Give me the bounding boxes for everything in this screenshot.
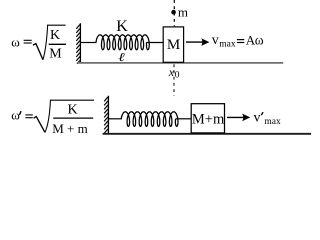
svg-text:m: m: [178, 4, 188, 19]
wire spring to box (top): [147, 42, 164, 44]
fraction bar 2: [53, 117, 93, 119]
fraction bar 1: [49, 43, 66, 45]
wire wall to spring (bottom): [109, 118, 122, 120]
svg-text:M: M: [167, 37, 180, 53]
dashed line below box: [173, 64, 175, 96]
spring K (top): [96, 35, 149, 50]
equals sign 2: [25, 115, 32, 118]
svg-text:K: K: [68, 102, 78, 117]
arrow v'max (bottom): [227, 116, 244, 118]
svg-text:max: max: [219, 40, 236, 50]
wire spring to box (bottom): [176, 118, 192, 120]
svg-text:M + m: M + m: [52, 121, 88, 136]
svg-text:0: 0: [175, 71, 180, 81]
svg-text:max: max: [264, 117, 281, 127]
svg-text:ω: ω: [11, 34, 20, 49]
svg-text:v: v: [254, 110, 261, 125]
svg-text:M: M: [49, 47, 62, 62]
mass box M: [163, 27, 183, 62]
svg-text:K: K: [116, 18, 128, 35]
spring (bottom): [121, 112, 178, 127]
radical sign 1: [33, 44, 43, 60]
radical sign 2: [34, 117, 45, 133]
ground line (bottom, black): [103, 133, 311, 135]
svg-text:M+m: M+m: [192, 112, 225, 128]
particle dot m: [171, 10, 176, 15]
mass box M+m: [191, 104, 224, 133]
svg-text:ω: ω: [255, 32, 264, 47]
ground line (top, gray): [78, 62, 283, 64]
svg-text:x: x: [168, 65, 175, 79]
equals sign 1: [24, 40, 32, 43]
svg-text:K: K: [50, 28, 60, 43]
dashed line above box: [173, 0, 175, 26]
svg-text:v: v: [212, 33, 219, 48]
wire wall to spring (top): [81, 42, 97, 44]
arrow vmax (top): [186, 41, 203, 43]
svg-text:ℓ: ℓ: [118, 52, 125, 65]
